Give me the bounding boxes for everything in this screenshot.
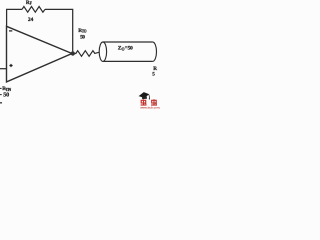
- wire: RF to output corner and down to node: [45, 9, 73, 51]
- node: output node dot: [71, 51, 75, 55]
- svg-text:RF: RF: [26, 0, 33, 6]
- watermark graduation cap base: [142, 96, 147, 99]
- op-amp non-inverting input sign (+): [9, 64, 12, 67]
- svg-text:24: 24: [28, 17, 34, 23]
- op-amp inverting input sign (-): [9, 30, 12, 32]
- svg-text:ZO=50: ZO=50: [118, 45, 133, 51]
- wire: non-inverting input stub: [0, 68, 7, 70]
- transmission line cylinder body top: [103, 41, 153, 43]
- watermark graduation cap board: [139, 92, 150, 98]
- resistor RF (zigzag): [22, 7, 45, 13]
- watermark cap tassel: [148, 95, 151, 99]
- transmission line cylinder left end-cap: [99, 42, 106, 61]
- svg-text:www.bcb.com.cn: www.bcb.com.cn: [139, 106, 160, 110]
- resistor RTO (zigzag): [75, 51, 99, 57]
- watermark character 2: [151, 99, 157, 105]
- svg-text:50: 50: [3, 91, 9, 98]
- transmission line cylinder body bottom: [103, 60, 153, 62]
- wire: feedback from inverting input up and right: [7, 9, 22, 26]
- value 50 (RTIN, clipped = sign at left edge): [0, 94, 2, 96]
- stray clipped glyph bottom-left: [0, 102, 2, 103]
- op-amp U1: [7, 26, 73, 82]
- watermark character 1: [141, 99, 147, 105]
- background: [0, 0, 160, 110]
- label RTIN (clipped = sign at left edge): [0, 87, 2, 89]
- svg-text:RTO: RTO: [78, 28, 86, 34]
- transmission line cylinder right end-cap arc: [153, 42, 157, 61]
